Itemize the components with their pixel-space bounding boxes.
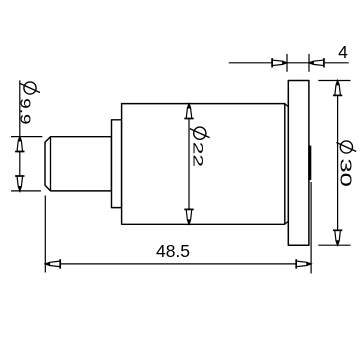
dimension Ø30: arrow down (333, 230, 342, 245)
dimension 48.5: dimension line (45, 263, 311, 265)
neck chamfer top (285, 104, 288, 106)
dimension Ø9.9: extension line bottom (11, 190, 41, 192)
dimension Ø22: label diameter symbol (190, 127, 210, 139)
dimension Ø30: dimension line (337, 81, 339, 246)
svg-text:4: 4 (338, 42, 348, 62)
main body Ø22 (122, 104, 285, 225)
dimension 4: extension tick right (308, 54, 310, 72)
svg-text:9.9: 9.9 (17, 98, 33, 124)
dimension 4: dimension line (229, 62, 349, 64)
shaft Ø9.9 outline with chamfered tip (45, 137, 112, 191)
dimension Ø30: extension line top (318, 80, 350, 82)
dimension Ø9.9: label diameter symbol (20, 82, 40, 94)
neck chamfer bottom (285, 221, 288, 223)
dimension Ø9.9: arrow down (15, 176, 24, 191)
dimension 48.5: extension line left (44, 196, 46, 273)
dimension 4: arrow pointing right (272, 58, 287, 67)
svg-text:30: 30 (337, 158, 355, 187)
collar ring (112, 120, 122, 208)
dimension Ø9.9: extension line top (11, 136, 42, 138)
dimension 48.5: extension line right (310, 182, 312, 274)
dimension 4: arrow pointing left (309, 58, 324, 67)
dimension Ø30: extension line bottom (318, 244, 350, 246)
dimension Ø22: dimension line (188, 104, 190, 225)
dimension Ø30: label diameter symbol (336, 141, 356, 153)
dimension Ø30: arrow up (333, 80, 342, 95)
dimension Ø22: arrow down (184, 209, 193, 224)
flange Ø30 (288, 81, 309, 246)
dimension 4: extension tick left (286, 54, 288, 72)
dimension 48.5: arrow pointing left (45, 259, 60, 268)
dimension Ø22: arrow up (184, 103, 193, 118)
svg-text:22: 22 (190, 142, 206, 167)
boss on flange right face (308, 146, 311, 180)
svg-text:48.5: 48.5 (156, 241, 190, 261)
dimension 48.5: arrow pointing right (296, 259, 311, 268)
chamfer edge line (50, 137, 52, 191)
dimension Ø9.9: arrow up (15, 136, 24, 151)
dimension Ø9.9: dimension line (19, 80, 21, 192)
